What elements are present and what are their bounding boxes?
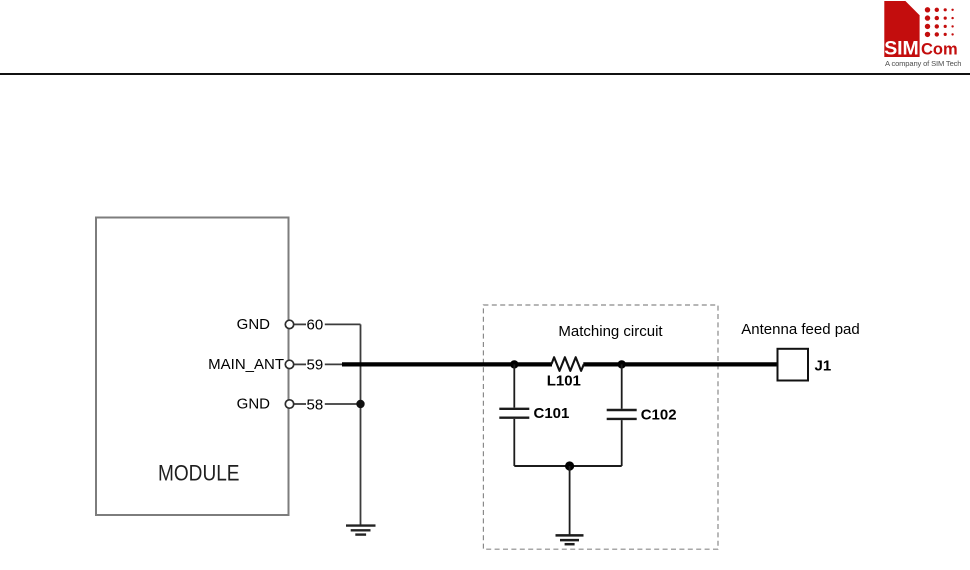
inductor L101: [551, 357, 583, 371]
pin 58 circle: [285, 400, 293, 408]
pin 58 stub: [294, 403, 306, 405]
svg-text:58: 58: [307, 396, 324, 413]
junction ground node: [565, 461, 574, 470]
svg-text:59: 59: [307, 357, 324, 374]
svg-text:GND: GND: [237, 316, 271, 333]
pin 59 stub: [294, 363, 306, 365]
matching circuit dashed box: [483, 305, 718, 549]
ground GND2: [556, 535, 584, 544]
svg-text:GND: GND: [237, 396, 271, 413]
svg-text:C101: C101: [534, 405, 570, 422]
junction node B (L101 right / C102 top): [618, 360, 626, 368]
pin 60 circle: [285, 320, 293, 328]
wire ground node to GND2: [569, 466, 571, 535]
svg-text:C102: C102: [641, 407, 677, 424]
module MODULE body: [96, 218, 289, 516]
svg-text:Com: Com: [921, 41, 958, 59]
RF trace MAIN_ANT thick wire left segment: [342, 362, 552, 366]
junction node A (L101 left / C101 top): [510, 360, 518, 368]
svg-text:Matching circuit: Matching circuit: [558, 323, 663, 340]
wire pin 58 to GND rail: [325, 403, 361, 405]
SIMCom logo: [884, 1, 961, 68]
header rule: [0, 73, 970, 75]
connector J1 pad: [778, 349, 809, 381]
svg-text:L101: L101: [547, 373, 581, 390]
svg-text:J1: J1: [815, 357, 832, 374]
capacitor C102: [607, 364, 637, 466]
svg-text:SIM: SIM: [884, 38, 919, 60]
RF trace thick wire right segment: [583, 362, 777, 366]
svg-text:60: 60: [307, 317, 324, 334]
capacitor C101: [499, 364, 529, 466]
svg-text:A company of SIM Tech: A company of SIM Tech: [885, 59, 962, 68]
wire pin 59 thin segment: [325, 363, 345, 365]
svg-text:MAIN_ANT: MAIN_ANT: [208, 356, 284, 373]
junction pin 58 / GND rail: [356, 400, 364, 408]
pin 59 circle: [285, 360, 293, 368]
GND rail vertical wire: [360, 324, 362, 525]
wire pin 60 to GND rail: [325, 323, 361, 325]
wire C101 bottom to C102 bottom: [514, 465, 621, 467]
ground GND1: [346, 526, 376, 535]
pin 60 stub: [294, 323, 306, 325]
svg-text:Antenna feed pad: Antenna feed pad: [741, 321, 859, 338]
svg-text:MODULE: MODULE: [158, 461, 240, 486]
